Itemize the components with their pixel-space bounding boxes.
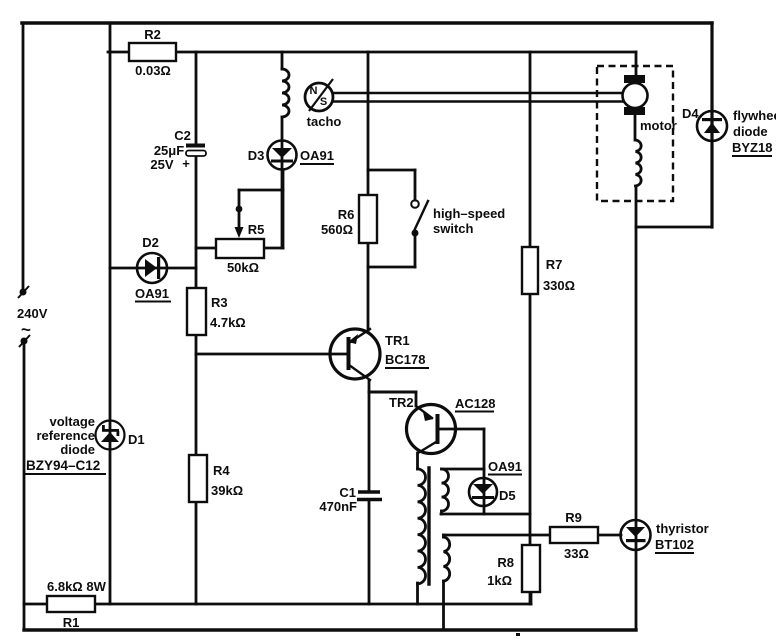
svg-text:AC128: AC128 (455, 396, 495, 411)
svg-text:TR1: TR1 (385, 333, 410, 348)
svg-text:D5: D5 (499, 488, 516, 503)
svg-text:R7: R7 (546, 257, 563, 272)
svg-text:39kΩ: 39kΩ (211, 483, 243, 498)
svg-text:OA91: OA91 (488, 459, 522, 474)
svg-text:BZY94–C12: BZY94–C12 (26, 458, 100, 473)
svg-text:25μF: 25μF (154, 143, 184, 158)
svg-text:R4: R4 (213, 463, 230, 478)
svg-text:0.03Ω: 0.03Ω (135, 63, 171, 78)
svg-text:BT102: BT102 (655, 537, 694, 552)
svg-text:+: + (182, 156, 190, 171)
svg-text:reference: reference (36, 428, 95, 443)
svg-text:OA91: OA91 (135, 286, 169, 301)
svg-text:R1: R1 (63, 615, 80, 630)
svg-text:R9: R9 (565, 510, 582, 525)
svg-text:thyristor: thyristor (656, 521, 709, 536)
svg-text:D2: D2 (142, 235, 159, 250)
svg-text:BYZ18: BYZ18 (732, 140, 772, 155)
svg-text:diode: diode (733, 124, 768, 139)
svg-text:560Ω: 560Ω (321, 222, 353, 237)
svg-text:BC178: BC178 (385, 352, 425, 367)
svg-text:high–speed: high–speed (433, 206, 505, 221)
svg-text:N: N (310, 85, 318, 97)
svg-text:D4: D4 (682, 106, 699, 121)
svg-text:switch: switch (433, 221, 474, 236)
svg-text:C1: C1 (339, 485, 356, 500)
svg-text:flywheel: flywheel (733, 108, 776, 123)
svg-text:50kΩ: 50kΩ (227, 260, 259, 275)
svg-text:~: ~ (21, 320, 31, 339)
svg-text:1kΩ: 1kΩ (487, 573, 512, 588)
svg-text:D1: D1 (128, 432, 145, 447)
svg-text:330Ω: 330Ω (543, 278, 575, 293)
svg-text:4.7kΩ: 4.7kΩ (210, 315, 246, 330)
svg-text:R3: R3 (211, 295, 228, 310)
svg-text:diode: diode (60, 442, 95, 457)
svg-text:D3: D3 (248, 148, 265, 163)
svg-text:240V: 240V (17, 306, 48, 321)
svg-text:C2: C2 (174, 128, 191, 143)
svg-text:TR2: TR2 (389, 395, 414, 410)
svg-text:R2: R2 (144, 27, 161, 42)
svg-text:6.8kΩ 8W: 6.8kΩ 8W (47, 579, 107, 594)
svg-text:25V: 25V (150, 157, 173, 172)
svg-text:tacho: tacho (307, 114, 342, 129)
svg-text:R5: R5 (248, 222, 265, 237)
svg-text:33Ω: 33Ω (564, 546, 589, 561)
svg-text:OA91: OA91 (300, 148, 334, 163)
svg-text:470nF: 470nF (319, 499, 357, 514)
svg-text:R8: R8 (497, 555, 514, 570)
svg-text:R6: R6 (338, 207, 355, 222)
svg-text:motor: motor (640, 118, 677, 133)
svg-text:S: S (320, 96, 327, 108)
svg-text:voltage: voltage (49, 414, 95, 429)
